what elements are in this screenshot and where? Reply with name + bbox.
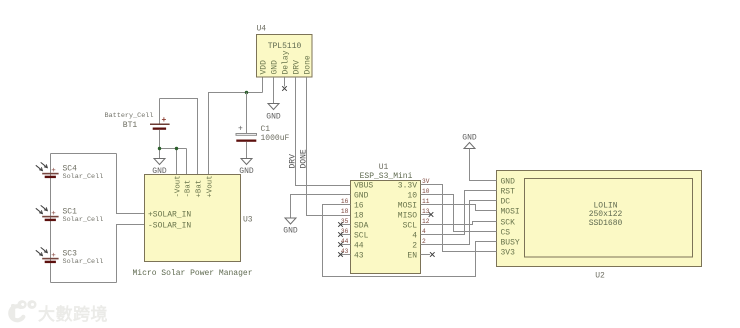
- svg-text:+Vout: +Vout: [207, 175, 215, 197]
- U1 ESP_S3_Mini: [341, 163, 430, 274]
- svg-text:4: 4: [422, 228, 426, 235]
- svg-text:BT1: BT1: [123, 121, 138, 130]
- pin stub SCK: [490, 221, 497, 223]
- svg-text:VDD: VDD: [260, 60, 269, 75]
- svg-text:43: 43: [354, 251, 364, 260]
- svg-text:SCL: SCL: [403, 221, 418, 230]
- pin stub 3V3: [490, 251, 497, 253]
- svg-text:EN: EN: [407, 251, 417, 260]
- pin stub RST: [490, 190, 497, 192]
- svg-text:Battery_Cell: Battery_Cell: [105, 112, 154, 120]
- watermark logo: [10, 300, 36, 320]
- svg-text:SC1: SC1: [63, 207, 78, 216]
- solar cell SC1: [36, 205, 103, 224]
- svg-text:3V: 3V: [422, 178, 430, 185]
- svg-text:CS: CS: [501, 228, 511, 237]
- svg-text:GND: GND: [266, 113, 281, 122]
- svg-text:SC3: SC3: [63, 249, 78, 258]
- svg-text:SSD1680: SSD1680: [589, 219, 623, 228]
- svg-text:10: 10: [422, 188, 430, 195]
- svg-text:Delay: Delay: [282, 50, 291, 74]
- svg-text:C1: C1: [261, 125, 271, 134]
- svg-text:+Bat: +Bat: [196, 180, 204, 198]
- svg-text:TPL5110: TPL5110: [268, 42, 302, 51]
- wire C1 bottom lead: [246, 142, 248, 159]
- wire 16 to BUSY: [323, 205, 497, 277]
- pin Delay no-connect: [282, 77, 287, 91]
- wire battery minus lead: [159, 130, 161, 159]
- svg-text:U1: U1: [379, 163, 389, 172]
- svg-text:44: 44: [341, 238, 349, 245]
- ground below C1: [239, 159, 254, 177]
- no-connect pin 44: [338, 242, 350, 247]
- svg-text:11: 11: [422, 198, 430, 205]
- pin stub CS: [490, 231, 497, 233]
- svg-text:DRV: DRV: [293, 60, 302, 75]
- wire -SOLAR_IN riser: [117, 225, 145, 283]
- wire 2 to DC: [421, 201, 497, 245]
- svg-text:3V3: 3V3: [501, 248, 516, 257]
- U3 Micro Solar Power Manager: [132, 175, 252, 279]
- wire -Vout drop: [176, 149, 178, 175]
- solar cell SC3: [36, 247, 103, 266]
- pin stub GND: [490, 180, 497, 182]
- U4 TPL5110: [257, 25, 313, 78]
- wire MOSI to MOSI: [421, 205, 497, 211]
- svg-text:GND: GND: [501, 177, 516, 186]
- svg-text:+SOLAR_IN: +SOLAR_IN: [148, 210, 191, 219]
- svg-text:U2: U2: [595, 272, 605, 281]
- svg-text:18: 18: [341, 208, 349, 215]
- wire +Vout to VDD: [209, 93, 263, 175]
- wire solar string top: [51, 153, 117, 155]
- svg-text:16: 16: [341, 198, 349, 205]
- svg-text:GND: GND: [283, 227, 298, 236]
- svg-text:VBUS: VBUS: [354, 181, 373, 190]
- wire solar string left bus: [50, 154, 52, 283]
- svg-text:GND: GND: [271, 60, 280, 75]
- wire C1 top lead: [246, 93, 248, 134]
- wire U2 GND net: [470, 149, 497, 181]
- pin stub DC: [490, 200, 497, 202]
- svg-text:大數跨境: 大數跨境: [38, 304, 108, 324]
- wire DONE net: [307, 77, 351, 216]
- svg-text:GND: GND: [462, 134, 477, 143]
- svg-text:Solar_Cell: Solar_Cell: [63, 173, 104, 181]
- wire 10 to CS: [421, 195, 497, 232]
- wire +SOLAR_IN riser: [117, 154, 145, 214]
- svg-text:-Vout: -Vout: [175, 175, 183, 197]
- svg-text:Solar_Cell: Solar_Cell: [63, 216, 104, 224]
- ground below U4: [266, 104, 281, 122]
- svg-text:10: 10: [407, 191, 417, 200]
- svg-text:44: 44: [354, 241, 364, 250]
- no-connect EN pin: [421, 252, 435, 257]
- svg-text:13: 13: [422, 208, 430, 215]
- ground below U1 GND: [283, 218, 298, 236]
- ground below battery: [152, 159, 167, 177]
- svg-text:DONE: DONE: [299, 149, 308, 168]
- svg-text:SDA: SDA: [354, 221, 369, 230]
- svg-text:MOSI: MOSI: [501, 207, 520, 216]
- svg-text:U4: U4: [257, 25, 267, 34]
- svg-text:RST: RST: [501, 187, 516, 196]
- junction battery minus: [158, 147, 161, 150]
- no-connect MISO pin 13: [421, 212, 434, 217]
- svg-text:1000uF: 1000uF: [261, 134, 290, 143]
- svg-text:250x122: 250x122: [589, 210, 623, 219]
- no-connect pin 43: [338, 252, 350, 257]
- svg-text:DC: DC: [501, 197, 511, 206]
- junction C1 tap: [245, 91, 248, 94]
- ground above U2: [462, 134, 477, 149]
- svg-text:Micro Solar Power Manager: Micro Solar Power Manager: [132, 269, 252, 278]
- wire -Bat drop: [186, 149, 188, 175]
- svg-text:3.3V: 3.3V: [398, 181, 417, 190]
- pin stub BUSY: [490, 241, 497, 243]
- svg-text:2: 2: [412, 241, 417, 250]
- wire battery top to +Bat: [160, 99, 198, 175]
- svg-text:GND: GND: [354, 191, 369, 200]
- svg-text:SCL: SCL: [354, 231, 369, 240]
- svg-text:MOSI: MOSI: [398, 201, 417, 210]
- svg-text:+: +: [238, 125, 243, 134]
- no-connect SCL pin 36: [338, 232, 350, 237]
- svg-text:SCK: SCK: [501, 218, 516, 227]
- wire battery junction horizontal: [160, 148, 187, 150]
- svg-text:36: 36: [341, 228, 349, 235]
- battery BT1: [105, 112, 170, 130]
- wire 4 to RST: [421, 191, 497, 235]
- no-connect SDA pin 35: [338, 222, 350, 227]
- wire SCL to SCK: [421, 222, 497, 225]
- svg-text:GND: GND: [239, 167, 254, 176]
- wire DRV net: [296, 77, 351, 186]
- svg-text:18: 18: [354, 211, 364, 220]
- wire solar string bottom: [51, 282, 117, 284]
- svg-text:43: 43: [341, 248, 349, 255]
- svg-text:BUSY: BUSY: [501, 238, 520, 247]
- junction -Vout: [175, 147, 178, 150]
- svg-text:12: 12: [422, 218, 430, 225]
- svg-text:SC4: SC4: [63, 164, 78, 173]
- pin stub MOSI: [490, 210, 497, 212]
- svg-text:U3: U3: [243, 216, 253, 225]
- wire U1 GND to ground: [291, 195, 351, 219]
- svg-text:MISO: MISO: [398, 211, 417, 220]
- svg-text:Done: Done: [304, 55, 313, 74]
- solar cell SC4: [36, 162, 103, 181]
- svg-text:ESP_S3_Mini: ESP_S3_Mini: [360, 172, 413, 181]
- wire U4 GND pin: [273, 77, 275, 104]
- wire VDD pin: [262, 77, 264, 93]
- wire battery plus lead: [159, 99, 161, 124]
- svg-text:DRV: DRV: [288, 154, 297, 169]
- svg-text:-SOLAR_IN: -SOLAR_IN: [148, 221, 191, 230]
- svg-text:35: 35: [341, 218, 349, 225]
- svg-text:-Bat: -Bat: [185, 180, 193, 198]
- capacitor C1: [236, 125, 290, 144]
- wire 3.3V to 3V3: [421, 185, 497, 252]
- svg-text:Solar_Cell: Solar_Cell: [63, 258, 104, 266]
- svg-text:LOLIN: LOLIN: [593, 202, 617, 211]
- svg-text:16: 16: [354, 201, 364, 210]
- svg-text:2: 2: [422, 238, 426, 245]
- svg-text:4: 4: [412, 231, 417, 240]
- U2 LOLIN display: [490, 171, 702, 281]
